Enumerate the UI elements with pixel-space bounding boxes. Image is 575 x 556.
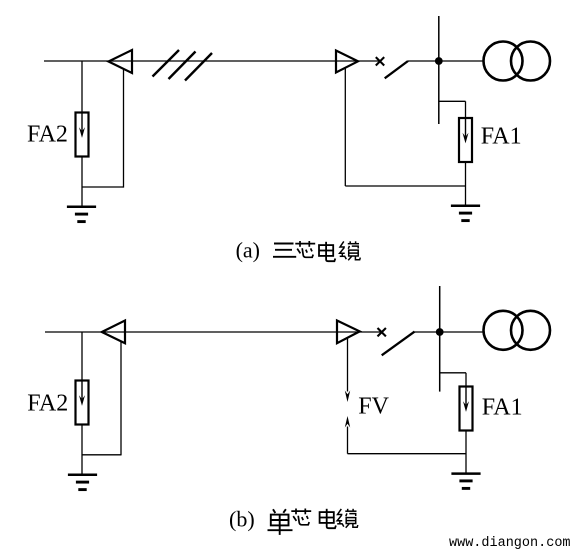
svg-text:FA1: FA1 xyxy=(481,124,522,150)
svg-text:FA1: FA1 xyxy=(482,395,523,421)
svg-text:www.diangon.com: www.diangon.com xyxy=(449,536,571,551)
svg-text:(b): (b) xyxy=(229,507,255,532)
svg-text:(a): (a) xyxy=(236,237,260,262)
svg-text:FV: FV xyxy=(358,394,389,420)
svg-text:FA2: FA2 xyxy=(27,122,68,148)
svg-text:FA2: FA2 xyxy=(27,390,68,416)
